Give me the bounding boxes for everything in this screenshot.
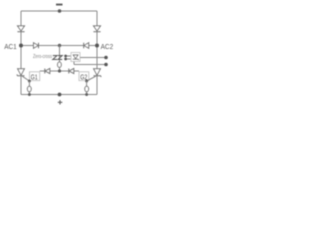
wire middle rail AC1 to AC2 [21,45,97,47]
svg-text:G1: G1 [31,75,38,82]
diode trigger right pointing left [69,69,74,74]
node center of middle rail [58,44,61,47]
capacitor input stub upper with terminal dot [66,55,72,57]
wire gate of Q1 [22,76,29,81]
resistor oval G2 column [85,86,89,91]
zener pair ZZ zero-cross element [53,56,62,60]
diode D3 on middle rail pointing right [34,43,39,49]
wire center column down from middle rail [59,46,61,72]
zener diode inside LED box [73,55,79,60]
thyristor Q1 on left rail [17,69,25,76]
thyristor Q2 on right rail [94,69,102,77]
wire gate of Q2 [87,76,96,81]
wire G1 column [28,81,30,95]
wire trigger line [40,70,79,72]
node right stub terminal upper [104,56,108,60]
svg-text:AC2: AC2 [101,44,114,51]
wire from LED box to right stub y57.5 [80,57,106,59]
node AC1 [19,44,23,48]
wire right vertical rail [96,11,98,95]
wire left vertical rail [20,11,22,95]
node gate G1 junction [28,80,31,83]
diode trigger left pointing left [45,69,50,74]
node right stub terminal lower [104,63,108,67]
resistor oval G1 column [27,86,31,91]
gate box G2 [79,72,89,81]
node G2 column to bottom rail junction [85,93,88,96]
wire G2 column [86,81,88,95]
resistor oval center column [58,62,62,67]
wire top rail [21,10,97,12]
diode D2 top-right [93,26,100,32]
node minus terminal dot [58,9,62,13]
node AC2 [95,44,99,48]
plus terminal label [58,100,63,104]
wire LED box bottom stub [73,62,75,65]
node plus terminal dot [58,93,62,97]
svg-text:Zero-cross: Zero-cross [33,54,52,60]
diode D1 top-left [17,26,24,32]
gate box G1 [30,72,40,81]
diode D4 on middle rail pointing left [84,43,89,49]
opto LED box [71,53,80,62]
node G1 column to bottom rail junction [28,93,31,96]
capacitor input stub lower with terminal dot [66,58,72,60]
svg-text:AC1: AC1 [4,44,17,51]
wire y64.5 to right stub [74,64,106,66]
wire bottom rail [21,94,97,96]
node trigger center [58,69,61,72]
node gate G2 junction [85,80,88,83]
minus terminal label [56,4,63,6]
